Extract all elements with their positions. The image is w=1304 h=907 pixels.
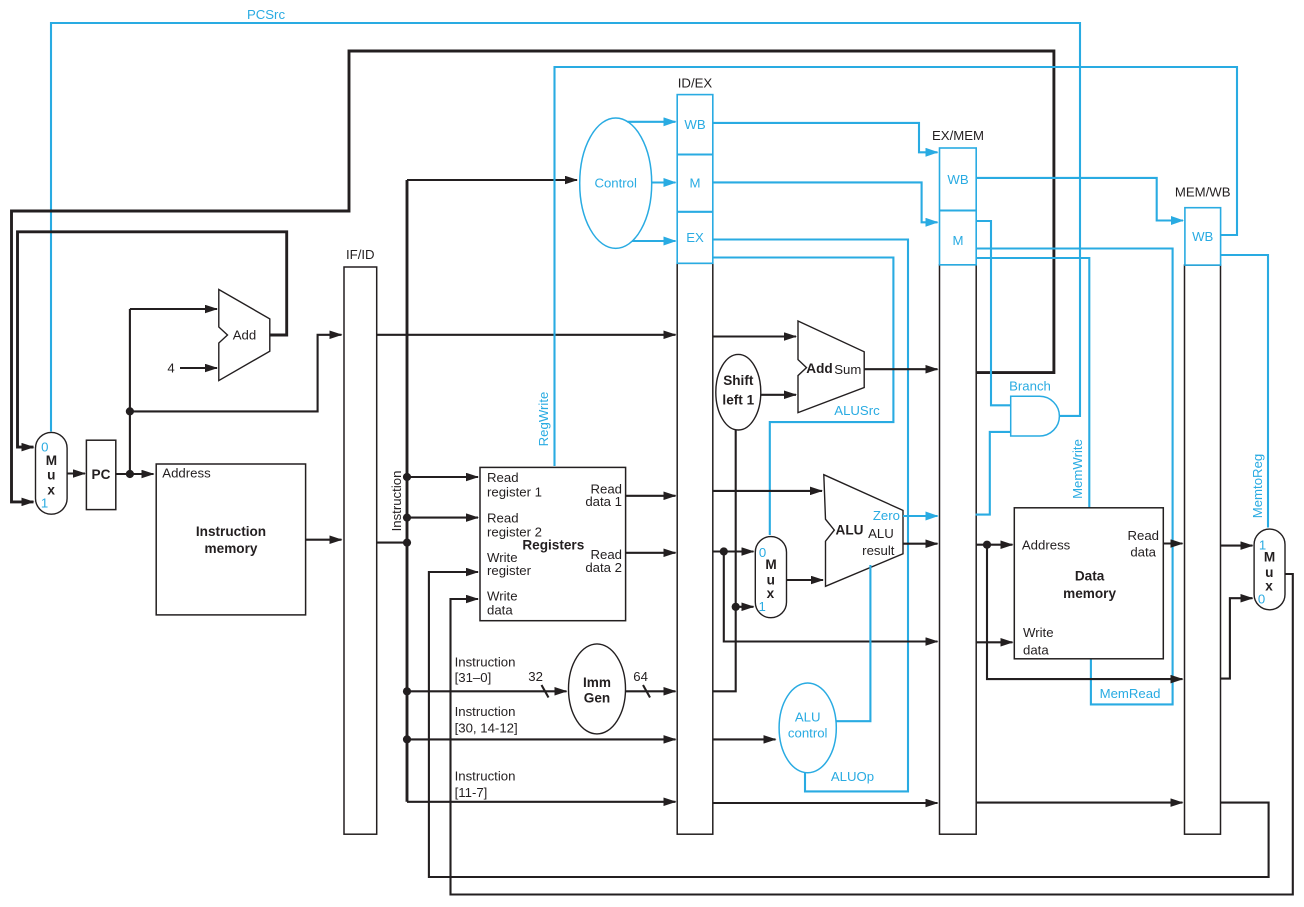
svg-text:Sum: Sum (834, 362, 861, 377)
wire Zero to EX/MEM (903, 515, 938, 517)
svg-text:WB: WB (947, 172, 968, 187)
wire ALU control to ALU operation input (836, 565, 870, 721)
oval Shift left 1 (716, 354, 761, 430)
svg-text:IF/ID: IF/ID (346, 247, 375, 262)
svg-text:Address: Address (162, 465, 211, 480)
wire PCSrc: AND gate output to PC mux select (51, 23, 1080, 432)
wire write register feedback from MEM/WB (429, 572, 1269, 877)
junction on PC vertical (126, 407, 134, 415)
wire write data feedback from final mux (451, 574, 1293, 895)
svg-text:Registers: Registers (522, 538, 584, 553)
pipeline register ID/EX control sections WB/M/EX (677, 95, 713, 264)
svg-text:u: u (47, 467, 55, 482)
svg-text:Imm: Imm (583, 675, 611, 690)
svg-text:WB: WB (684, 117, 705, 132)
wire instruction to Control (407, 179, 577, 181)
gate AND (branch) (1011, 396, 1060, 436)
wire imm to ALU mux input 1 (736, 606, 754, 608)
svg-text:Data: Data (1075, 568, 1105, 583)
wire instruction [11-7] to ID/EX (407, 801, 676, 803)
svg-text:ALU: ALU (836, 523, 864, 538)
wire funct to ALU control (713, 738, 776, 740)
wire Control to ID/EX EX (632, 240, 676, 242)
wire ID/EX write register [11-7] to EX/MEM (713, 802, 938, 804)
svg-text:ID/EX: ID/EX (678, 76, 713, 91)
svg-text:Address: Address (1022, 537, 1071, 552)
svg-text:[31–0]: [31–0] (455, 670, 492, 685)
svg-text:WB: WB (1192, 229, 1213, 244)
pipeline register EX/MEM (datapath section) (940, 265, 977, 834)
svg-text:EX/MEM: EX/MEM (932, 128, 984, 143)
wire PC+4 loop: Add output to PC mux input 0 (18, 232, 287, 447)
svg-text:MemtoReg: MemtoReg (1250, 454, 1265, 519)
svg-text:ALU: ALU (795, 709, 821, 724)
wire ALU mux output to ALU (787, 579, 824, 581)
register PC (86, 440, 115, 509)
svg-text:x: x (1265, 579, 1273, 594)
junction (403, 687, 411, 695)
wire ALUSrc: ID/EX EX to ALU mux select (713, 258, 893, 536)
wire PC value up (129, 309, 131, 474)
mux M1 (PC source mux) (36, 432, 68, 514)
svg-text:MemWrite: MemWrite (1070, 439, 1085, 499)
svg-text:M: M (1264, 550, 1275, 565)
wire MemWrite: EX/MEM M to data memory (976, 258, 1089, 508)
wire branch-target loop: EX/MEM to PC mux input 1 (12, 51, 1054, 502)
wire Imm Gen output to ID/EX (625, 690, 675, 692)
svg-text:Gen: Gen (584, 691, 610, 706)
svg-text:Instruction: Instruction (389, 471, 404, 532)
adder Add Sum (798, 321, 864, 413)
junction (403, 473, 411, 481)
wire instruction bus vertical (406, 180, 409, 802)
svg-text:data: data (1130, 545, 1156, 560)
block Registers (480, 467, 626, 620)
svg-text:4: 4 (167, 361, 174, 376)
wire PC mux output to PC (67, 472, 85, 474)
svg-text:[30, 14-12]: [30, 14-12] (455, 721, 518, 736)
svg-text:Write: Write (487, 589, 518, 604)
junction imm branch (732, 603, 740, 611)
wire ALU result bypass to MEM/WB (987, 545, 1183, 679)
svg-text:result: result (862, 543, 895, 558)
pipeline register MEM/WB control section WB (1185, 208, 1221, 265)
junction Read data 2 branch (720, 547, 728, 555)
bus width slash 32 (542, 685, 549, 698)
pipeline register IF/ID (344, 267, 377, 834)
svg-text:32: 32 (528, 669, 543, 684)
svg-text:ALU: ALU (868, 526, 894, 541)
block data memory (1014, 508, 1163, 659)
wire ID/EX PC to Add Sum top input (713, 335, 796, 337)
svg-text:Read: Read (487, 510, 519, 525)
svg-text:control: control (788, 725, 828, 740)
wire Read data 1 to ALU (713, 490, 822, 492)
svg-text:1: 1 (41, 496, 48, 511)
mux M3 (write-back mux) (1254, 529, 1285, 610)
wire EX/MEM write data to data memory (976, 641, 1013, 643)
pipeline register ID/EX (datapath section) (677, 263, 713, 834)
pipeline register MEM/WB (datapath section) (1185, 265, 1221, 834)
wire Add Sum result to EX/MEM (864, 368, 937, 370)
svg-text:M: M (953, 233, 964, 248)
oval ALU control (779, 683, 836, 773)
wire PC to IF/ID (130, 335, 342, 412)
svg-text:M: M (46, 453, 57, 468)
wire RegWrite: MEM/WB WB to Registers (555, 67, 1238, 466)
svg-text:Zero: Zero (873, 508, 900, 523)
svg-text:Add: Add (233, 328, 256, 343)
svg-text:0: 0 (1258, 592, 1265, 607)
wire MemRead: EX/MEM M to data memory (976, 249, 1172, 705)
wire PC to instruction memory Address (116, 473, 154, 475)
svg-text:data 1: data 1 (585, 494, 622, 509)
wire Read data 2 to ID/EX (626, 552, 676, 554)
svg-text:Instruction: Instruction (455, 704, 516, 719)
wire instruction to Read register 1 (407, 476, 478, 478)
wire instruction [31-0] to Imm Gen (407, 690, 567, 692)
svg-text:Read: Read (1127, 528, 1159, 543)
svg-text:Read: Read (487, 470, 519, 485)
svg-text:Branch: Branch (1009, 379, 1051, 394)
wire instruction memory output to IF/ID (306, 539, 342, 541)
wire Control to ID/EX M (652, 181, 676, 183)
svg-text:register 1: register 1 (487, 484, 542, 499)
wire ID/EX M to EX/MEM M (713, 182, 938, 222)
svg-text:Shift: Shift (723, 373, 754, 388)
wire constant 4 to Add bottom input (180, 367, 217, 369)
svg-text:Write: Write (1023, 625, 1054, 640)
wire MEM/WB ALU result to final mux input 0 (1221, 598, 1253, 678)
svg-text:Instruction: Instruction (455, 655, 516, 670)
wire ALU result to EX/MEM (903, 543, 938, 545)
wire EX/MEM write register to MEM/WB (976, 802, 1183, 804)
wire data memory Read data to MEM/WB (1163, 542, 1182, 544)
svg-text:EX: EX (686, 230, 704, 245)
svg-text:1: 1 (759, 599, 766, 614)
wire PC from IF/ID to ID/EX (377, 334, 676, 336)
junction instruction bus at IF/ID output (403, 539, 411, 547)
svg-text:RegWrite: RegWrite (536, 392, 551, 447)
wire Zero from EX/MEM to AND gate (976, 432, 1010, 515)
wire instruction to Read register 2 (407, 517, 478, 519)
junction (403, 514, 411, 522)
wire IF/ID instruction output to instruction bus (377, 542, 407, 544)
oval Imm Gen (569, 644, 626, 734)
wire ID/EX WB to EX/MEM WB (713, 123, 938, 152)
svg-text:64: 64 (633, 669, 648, 684)
svg-text:x: x (47, 482, 55, 497)
pipeline register EX/MEM control sections WB/M (940, 148, 977, 265)
wire Control to ID/EX WB (628, 121, 676, 123)
svg-text:PCSrc: PCSrc (247, 7, 286, 22)
alu ALU (824, 475, 903, 587)
svg-text:ALUSrc: ALUSrc (834, 403, 880, 418)
svg-text:Instruction: Instruction (455, 769, 516, 784)
junction ALU result branch (983, 541, 991, 549)
svg-text:M: M (765, 557, 776, 572)
svg-text:ALUOp: ALUOp (831, 769, 874, 784)
wire Read data 1 to ID/EX (626, 495, 676, 497)
wire PC to Add top input (130, 308, 217, 310)
svg-text:Control: Control (594, 176, 637, 191)
junction (403, 735, 411, 743)
svg-text:[11-7]: [11-7] (455, 785, 488, 800)
oval Control (580, 118, 652, 248)
svg-text:register: register (487, 563, 532, 578)
mux M2 (ALU operand mux) (755, 537, 786, 618)
svg-text:MemRead: MemRead (1100, 686, 1161, 701)
svg-text:MEM/WB: MEM/WB (1175, 185, 1231, 200)
wire MemtoReg: MEM/WB WB to final mux select (1221, 255, 1268, 528)
svg-text:PC: PC (92, 467, 111, 482)
svg-text:memory: memory (205, 541, 258, 556)
svg-text:Add: Add (806, 361, 832, 376)
wire Read data 2 down to EX/MEM write data (724, 552, 938, 642)
svg-text:x: x (767, 586, 775, 601)
svg-text:data: data (487, 603, 513, 618)
svg-text:M: M (690, 176, 701, 191)
wire imm up to Shift left 1 (713, 429, 736, 691)
svg-text:data 2: data 2 (585, 560, 622, 575)
wire ALUOp: ID/EX EX to ALU control (713, 240, 908, 792)
junction on PC output (126, 470, 134, 478)
adder Add (219, 290, 270, 381)
wire Branch: EX/MEM M to AND gate (976, 221, 1010, 405)
wire EX/MEM WB to MEM/WB WB (976, 178, 1183, 221)
svg-text:left 1: left 1 (722, 393, 754, 408)
svg-text:memory: memory (1063, 586, 1116, 601)
block instruction memory (156, 464, 305, 615)
wire EX/MEM ALU result to data memory Address (976, 544, 1013, 546)
wire Read data 2 to ALU mux input 0 (713, 550, 754, 552)
wire instruction [30,14-12] to ID/EX (407, 738, 676, 740)
wire MEM/WB read data to final mux input 1 (1221, 545, 1253, 547)
bus width slash 64 (643, 685, 650, 698)
wire Shift left 1 to Add Sum bottom input (761, 394, 796, 396)
svg-text:data: data (1023, 643, 1049, 658)
svg-text:Instruction: Instruction (196, 524, 266, 539)
